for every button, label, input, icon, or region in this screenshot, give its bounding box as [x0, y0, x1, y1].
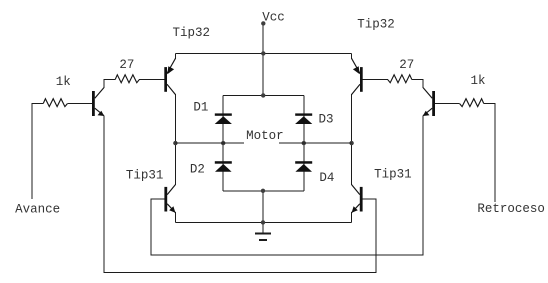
- svg-text:Tip31: Tip31: [374, 168, 412, 182]
- svg-text:Avance: Avance: [15, 203, 60, 217]
- svg-text:Vcc: Vcc: [262, 10, 285, 24]
- svg-text:1k: 1k: [471, 74, 486, 88]
- svg-text:Motor: Motor: [246, 129, 284, 143]
- svg-text:D1: D1: [193, 101, 208, 115]
- svg-text:Tip32: Tip32: [357, 17, 395, 31]
- svg-text:Tip31: Tip31: [126, 169, 164, 183]
- svg-text:D2: D2: [190, 163, 205, 177]
- svg-text:27: 27: [399, 58, 414, 72]
- svg-text:D4: D4: [319, 171, 334, 185]
- svg-text:D3: D3: [319, 112, 334, 126]
- svg-text:Tip32: Tip32: [173, 26, 211, 40]
- svg-text:Retroceso: Retroceso: [477, 202, 545, 216]
- svg-text:1k: 1k: [56, 75, 71, 89]
- svg-text:27: 27: [119, 58, 134, 72]
